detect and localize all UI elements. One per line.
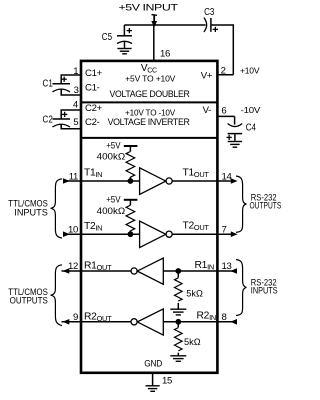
svg-text:VOLTAGE DOUBLER: VOLTAGE DOUBLER	[110, 89, 190, 100]
svg-text:V+: V+	[201, 70, 213, 81]
wire T2 output line	[172, 233, 231, 235]
svg-text:+5V: +5V	[106, 140, 120, 150]
svg-text:C1-: C1-	[85, 82, 100, 93]
pin 6 stub	[217, 115, 234, 117]
wire T1 input line	[63, 180, 140, 182]
svg-text:8: 8	[222, 312, 227, 323]
wire R2 input line	[163, 321, 237, 323]
brace TTL/CMOS outputs	[51, 265, 62, 326]
+5V input arrow	[151, 15, 157, 28]
ground for C4	[228, 142, 242, 148]
node junction T2	[127, 231, 133, 237]
arrow into pin 10	[63, 231, 70, 237]
svg-text:T1IN: T1IN	[84, 168, 102, 180]
resistor 5k (R2)	[175, 322, 183, 356]
resistor 5k (R1)	[175, 271, 183, 309]
wire resistor to T2 node	[129, 231, 131, 235]
svg-text:5kΩ: 5kΩ	[186, 288, 203, 298]
svg-text:5: 5	[73, 117, 78, 128]
svg-text:C2+: C2+	[85, 103, 103, 114]
ground for C5	[117, 49, 131, 54]
arrow out of pin 7	[231, 231, 238, 237]
svg-text:7: 7	[222, 225, 227, 236]
capacitor C1	[43, 75, 81, 95]
brace RS-232 outputs	[236, 176, 246, 232]
svg-text:15: 15	[162, 376, 172, 387]
svg-text:OUTPUTS: OUTPUTS	[10, 295, 48, 305]
svg-text:400kΩ: 400kΩ	[97, 206, 126, 216]
arrow out of pin 9	[63, 319, 70, 325]
svg-text:VOLTAGE INVERTER: VOLTAGE INVERTER	[108, 117, 190, 128]
svg-text:16: 16	[160, 49, 170, 60]
capacitor C2	[43, 110, 81, 129]
op-amp R1 receiver	[131, 258, 163, 284]
wire resistor to T1 node	[129, 177, 131, 181]
wire T2 input line	[63, 233, 140, 235]
divider line below inverter section	[81, 137, 217, 139]
arrow into pin 13	[230, 268, 237, 274]
brace TTL/CMOS inputs	[51, 179, 62, 238]
IC body U1	[81, 61, 217, 373]
resistor 400k (T1)	[126, 152, 135, 178]
pin 2 stub	[217, 74, 233, 76]
node junction T1	[127, 178, 133, 184]
wire R1 output line	[62, 270, 132, 272]
node junction R2	[175, 319, 181, 325]
svg-text:C2-: C2-	[85, 117, 100, 128]
svg-text:T2OUT: T2OUT	[183, 221, 210, 233]
pin 15 stub	[152, 373, 154, 385]
node junction R1	[175, 268, 181, 274]
wire R2 output line	[62, 321, 132, 323]
capacitor C4	[227, 116, 257, 140]
arrow out of pin 14	[231, 178, 238, 184]
op-amp T2 driver	[140, 221, 173, 248]
svg-text:C1+: C1+	[85, 68, 103, 79]
brace RS-232 inputs	[236, 260, 246, 316]
svg-text:INPUTS: INPUTS	[251, 285, 278, 295]
capacitor C3	[204, 7, 218, 32]
svg-text:R2IN: R2IN	[197, 310, 216, 322]
op-amp T1 driver	[140, 168, 173, 195]
+5V supply bar for T2 pullup	[106, 194, 137, 205]
svg-text:R1IN: R1IN	[195, 260, 214, 272]
svg-text:-10V: -10V	[241, 105, 261, 115]
arrow into pin 11	[63, 178, 70, 184]
svg-text:C2: C2	[43, 115, 54, 126]
svg-text:2: 2	[221, 66, 226, 77]
svg-text:C3: C3	[204, 7, 215, 18]
svg-text:C4: C4	[246, 123, 257, 134]
svg-text:+5V: +5V	[106, 194, 120, 204]
svg-text:C5: C5	[102, 32, 113, 43]
divider line between doubler and inverter sections	[81, 101, 217, 103]
ground for R1 termination	[170, 309, 186, 315]
svg-text:1: 1	[73, 66, 78, 77]
wire rail to pin 16	[153, 25, 155, 61]
svg-text:+10V TO -10V: +10V TO -10V	[125, 107, 175, 117]
svg-text:OUTPUTS: OUTPUTS	[250, 201, 282, 211]
capacitor C5	[102, 25, 132, 48]
svg-text:T1OUT: T1OUT	[183, 167, 210, 179]
svg-text:+5V INPUT: +5V INPUT	[119, 2, 179, 13]
arrow out of pin 12	[63, 268, 70, 274]
svg-text:4: 4	[73, 99, 79, 110]
svg-text:INPUTS: INPUTS	[14, 207, 48, 217]
wire C3 to V+	[211, 25, 233, 75]
svg-text:6: 6	[221, 105, 226, 116]
+5V supply bar for T1 pullup	[106, 140, 137, 151]
arrow into pin 8	[230, 319, 237, 325]
svg-text:3: 3	[74, 85, 79, 96]
svg-text:13: 13	[222, 261, 232, 272]
svg-text:5kΩ: 5kΩ	[184, 337, 201, 347]
wire +5V rail	[124, 24, 205, 26]
wire R1 input line	[163, 270, 237, 272]
svg-text:V-: V-	[203, 105, 212, 116]
op-amp R2 receiver	[131, 309, 163, 335]
svg-text:400kΩ: 400kΩ	[97, 151, 126, 161]
ground at pin 15	[146, 386, 160, 392]
svg-text:T2IN: T2IN	[84, 221, 102, 233]
svg-text:C1: C1	[43, 79, 54, 90]
wire T1 output line	[172, 180, 231, 182]
svg-text:GND: GND	[144, 358, 162, 369]
svg-text:14: 14	[222, 171, 233, 182]
svg-text:+10V: +10V	[240, 66, 260, 76]
resistor 400k (T2)	[126, 205, 135, 231]
svg-text:+5V TO +10V: +5V TO +10V	[125, 73, 176, 83]
ground for R2 termination	[170, 356, 186, 362]
